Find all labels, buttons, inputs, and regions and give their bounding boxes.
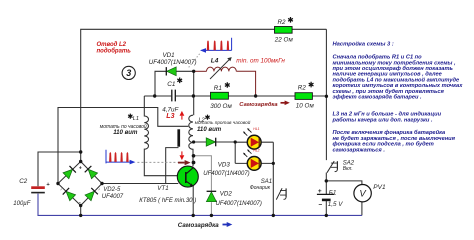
voltmeter PV1 [354, 185, 371, 202]
note paragraph 2 [332, 111, 442, 124]
inductor L4 [207, 57, 237, 79]
switch SA2 [327, 161, 337, 173]
svg-text:10 Ом: 10 Ом [296, 103, 315, 110]
label L1 [100, 114, 147, 137]
svg-text:min. от 100мкГн: min. от 100мкГн [236, 57, 285, 64]
svg-text:Отвод L2: Отвод L2 [97, 42, 127, 48]
wire R2 10 row [256, 95, 327, 97]
svg-text:L4: L4 [211, 57, 219, 64]
label R2 22 [274, 17, 294, 43]
svg-text:Самозарядка: Самозарядка [178, 222, 219, 229]
label L2 [195, 115, 251, 134]
wire LED2 branch [235, 162, 273, 164]
inductor L1 winding [144, 96, 185, 176]
bridge diode bottom-left [63, 188, 76, 201]
dashed scope link to collector [137, 160, 190, 165]
svg-text:3: 3 [126, 68, 131, 78]
label B1 [318, 188, 344, 208]
red arrow L3 up [180, 111, 185, 120]
label SA2 [343, 161, 355, 172]
wire L3 link to emitter line [166, 148, 179, 184]
svg-text:Вкл.: Вкл. [343, 166, 353, 172]
junction node dots [56, 70, 328, 217]
svg-text:100µF: 100µF [13, 201, 30, 207]
svg-text:300 Ом: 300 Ом [210, 103, 232, 110]
svg-text:VD2: VD2 [220, 191, 233, 198]
pulse waveform icon top [200, 38, 232, 53]
label C2 [13, 178, 50, 207]
svg-text:UF4007(1N4007): UF4007(1N4007) [203, 171, 249, 177]
wire bridge bottom stub [80, 206, 82, 216]
wire node B vertical to L2 top [193, 71, 195, 115]
svg-text:110 вит: 110 вит [197, 126, 222, 133]
pulse waveform icon left [106, 150, 135, 165]
diode VD3 [206, 138, 216, 147]
label C1 [167, 78, 182, 89]
svg-text:HL2: HL2 [253, 149, 259, 153]
switch SA1 [276, 188, 286, 199]
svg-text:мотать против часовой: мотать против часовой [195, 119, 251, 125]
wire bridge right to transistor [102, 183, 178, 185]
note title [333, 40, 394, 47]
capacitor C1 [172, 90, 176, 102]
wire SA2 to battery to rail [325, 173, 327, 216]
wire bottom blue rail [38, 194, 362, 216]
svg-text:VD3: VD3 [218, 161, 231, 168]
svg-text:C2: C2 [19, 178, 27, 185]
note paragraph 3 [333, 129, 456, 153]
svg-text:UF4007(1N4007): UF4007(1N4007) [216, 201, 262, 207]
wire top rail and left drop [81, 29, 327, 161]
label L3 [166, 113, 174, 120]
bridge diode top-left [63, 166, 76, 179]
scheme number circle 3 [122, 66, 135, 79]
svg-text:C1: C1 [167, 81, 176, 88]
svg-text:VD2-5: VD2-5 [103, 187, 121, 193]
label R2 10 [296, 82, 315, 110]
resistor R2 22 Om [275, 27, 293, 34]
svg-text:R1: R1 [214, 85, 222, 92]
bridge diode bottom-right [85, 188, 98, 201]
red arrow L3 down [180, 151, 185, 160]
svg-text:HL1: HL1 [253, 127, 259, 131]
svg-text:Самозарядка: Самозарядка [239, 102, 278, 108]
svg-text:R2: R2 [278, 19, 287, 26]
svg-text:эффект самозаряда батареи .: эффект самозаряда батареи . [333, 94, 423, 101]
svg-text:22 Ом: 22 Ом [274, 36, 294, 43]
diode VD1 [166, 67, 176, 76]
svg-text:Фонарик: Фонарик [250, 185, 271, 191]
wire C1 row [144, 95, 193, 97]
wire tap riser from bridge left to L2 tap [58, 108, 188, 184]
svg-text:~: ~ [97, 187, 103, 192]
wire VD2 branch [194, 156, 212, 216]
resistor R2 10 Om [295, 93, 312, 100]
label HL1 [253, 127, 259, 131]
svg-text:UF4007(1N4007): UF4007(1N4007) [149, 59, 197, 66]
svg-text:самозаряжаться .: самозаряжаться . [333, 147, 386, 153]
label VT1 [139, 185, 196, 204]
svg-text:−: − [318, 201, 322, 208]
label C1 value [162, 106, 179, 113]
wire VD3 row [194, 141, 236, 143]
svg-text:+: + [79, 166, 82, 172]
inductor L2 winding [189, 115, 193, 166]
resistor R1 300 Om [211, 92, 229, 99]
svg-text:L1: L1 [133, 116, 139, 122]
svg-text:UF4007: UF4007 [102, 194, 124, 200]
label L4 value [236, 57, 285, 64]
wire right drop to SA2 [325, 29, 327, 160]
wire LED branch verticals [235, 142, 273, 215]
LED HL1 [243, 128, 261, 149]
svg-text:+: + [46, 182, 50, 188]
label SA1 [250, 179, 272, 191]
svg-text:Б1: Б1 [329, 189, 337, 196]
wire bridge diamond [58, 162, 102, 206]
label samozaryadka bottom [178, 222, 233, 229]
battery B1 [317, 194, 334, 200]
svg-text:SA1: SA1 [261, 179, 272, 185]
svg-text:+: + [318, 188, 322, 195]
label VD3 [203, 161, 249, 177]
svg-text:подобрать: подобрать [97, 48, 132, 55]
diode VD2 [206, 191, 216, 201]
svg-text:R2: R2 [298, 85, 307, 92]
wire C2 top link [38, 152, 81, 186]
label R1 300 [210, 82, 232, 110]
svg-text:1,5 V: 1,5 V [328, 201, 344, 208]
bridge polarity marks [59, 166, 103, 206]
wire emitter to rail [192, 186, 194, 216]
dotted scope link to node B [189, 54, 200, 68]
label HL2 [253, 149, 259, 153]
svg-text:КТ805 ( hFE min.30 ): КТ805 ( hFE min.30 ) [139, 198, 196, 204]
svg-text:110 вит: 110 вит [113, 129, 138, 136]
label otvod L2 [97, 42, 132, 55]
wire PV1 branch [326, 181, 362, 216]
svg-text:PV1: PV1 [373, 184, 386, 191]
wire VD1 row [155, 71, 194, 96]
label L4 [211, 57, 219, 64]
note paragraph 1 [333, 54, 464, 101]
svg-text:Настройка схемы 3 :: Настройка схемы 3 : [333, 40, 394, 47]
svg-text:L3: L3 [166, 113, 174, 120]
label VD2-5 [102, 187, 124, 200]
svg-text:VT1: VT1 [157, 185, 168, 192]
transformer core [177, 129, 180, 146]
label PV1 [373, 184, 386, 191]
wire LED1 branch [235, 141, 273, 143]
wire maroon L4 branch [194, 71, 256, 96]
svg-text:работы качера или доп. нагрузк: работы качера или доп. нагрузки . [332, 116, 433, 123]
LED HL2 [243, 149, 261, 170]
transistor VT1 [177, 166, 198, 187]
capacitor C2 [31, 186, 45, 193]
wire R1 row [193, 95, 255, 97]
label samozaryadka top [239, 101, 289, 108]
label VD1 [149, 52, 197, 66]
bridge diode top-right [85, 166, 98, 179]
label VD2 [216, 191, 262, 208]
